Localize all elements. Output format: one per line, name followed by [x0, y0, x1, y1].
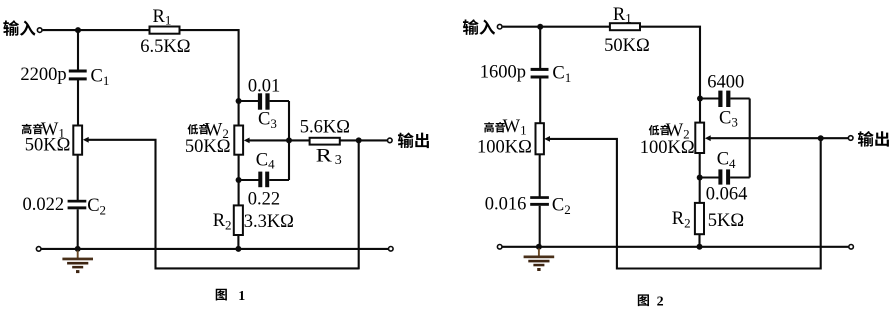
junction: R2 on bottom rail (figure 2)	[697, 244, 703, 250]
capacitor C1 top plate (figure 2)	[531, 68, 549, 71]
svg-text:1: 1	[238, 289, 245, 304]
label R3	[316, 145, 333, 166]
svg-text:5KΩ: 5KΩ	[708, 211, 744, 231]
junction: input / C1 node (figure 2)	[537, 24, 543, 30]
wire W1 bottom to C2	[77, 155, 79, 201]
wire C3 right lead	[270, 100, 289, 102]
svg-text:100KΩ: 100KΩ	[477, 137, 532, 157]
wire C4 right lead	[269, 179, 289, 181]
bottom rail right terminal (figure 2)	[849, 245, 854, 250]
wire input terminal to R1	[43, 29, 150, 31]
wire C1 lower lead to W1 top	[77, 79, 79, 127]
wire R2 bottom lead (figure 2)	[698, 234, 700, 247]
capacitor C1 top plate	[69, 70, 87, 73]
junction: wiper / C3 / C4 node	[286, 137, 292, 143]
potentiometer W1 wiper arrow (figure 2)	[544, 136, 550, 142]
caption 图 1	[216, 289, 227, 301]
svg-text:2200p: 2200p	[20, 65, 66, 85]
junction: output node (figure 2)	[818, 135, 824, 141]
wire input terminal to R1 (figure 2)	[503, 26, 610, 28]
svg-text:50KΩ: 50KΩ	[25, 136, 71, 156]
potentiometer W2 wiper arrow (figure 2)	[705, 135, 711, 141]
capacitor C4 right plate	[265, 172, 269, 188]
capacitor C3 right plate	[265, 93, 269, 109]
label 低音 (bass)	[188, 124, 199, 134]
resistor R1 (figure 2)	[610, 23, 640, 30]
junction: R2 on bottom rail	[235, 246, 241, 252]
svg-text:5.6KΩ: 5.6KΩ	[300, 118, 350, 138]
wire R3 to output junction	[340, 139, 360, 141]
capacitor C1 bottom plate (figure 2)	[531, 76, 549, 79]
wire C4 right lead (figure 2)	[730, 176, 750, 178]
svg-text:0.022: 0.022	[23, 195, 65, 215]
node: input net label 输入 (figure 2)	[463, 19, 479, 35]
wire C4 left lead (figure 2)	[700, 176, 719, 178]
svg-text:0.01: 0.01	[248, 77, 280, 97]
capacitor C4 left plate (figure 2)	[718, 169, 722, 184]
junction: W2 bottom / C4 left node	[236, 177, 242, 183]
junction: W2 top / C3 left node	[236, 98, 242, 104]
input terminal (figure 1)	[37, 28, 42, 33]
junction: W2 bottom / C4 left node (figure 2)	[697, 175, 703, 181]
svg-text:2: 2	[657, 294, 664, 309]
junction: C2 / ground on bottom rail (figure 2)	[536, 244, 542, 250]
label 高音 (treble, figure 2)	[484, 122, 494, 132]
potentiometer W2 body (figure 2)	[695, 123, 704, 153]
svg-text:R: R	[316, 145, 333, 166]
svg-text:50KΩ: 50KΩ	[604, 36, 650, 56]
caption 图 2	[638, 294, 649, 306]
resistor R3	[310, 138, 340, 145]
svg-text:3: 3	[335, 153, 342, 168]
node: output net label 输出 (figure 1)	[398, 132, 414, 148]
wire C3 left lead	[239, 100, 259, 102]
junction: C2 / ground on bottom rail	[75, 246, 81, 252]
wire C1 upper lead (figure 2)	[539, 27, 541, 69]
wire W2 wiper to R3	[249, 139, 309, 141]
wire C1 upper lead	[77, 30, 79, 70]
svg-text:6400: 6400	[707, 73, 744, 93]
bottom rail right terminal (figure 1)	[389, 247, 394, 252]
resistor R2	[234, 205, 243, 235]
capacitor C2 bottom plate (figure 2)	[530, 203, 549, 206]
label 低音 (bass, figure 2)	[649, 125, 660, 135]
wire W2 bottom to R2 top	[238, 155, 240, 206]
capacitor C4 right plate (figure 2)	[726, 169, 730, 184]
junction: output node (figure 1)	[356, 137, 362, 143]
resistor R2 (figure 2)	[695, 203, 704, 234]
label 高音 (treble)	[22, 124, 32, 134]
output terminal (figure 2)	[848, 136, 853, 141]
potentiometer W2 wiper arrow	[244, 138, 250, 144]
svg-text:100KΩ: 100KΩ	[640, 138, 695, 158]
wire C3 right lead (figure 2)	[730, 97, 749, 99]
capacitor C2 top plate	[68, 200, 87, 203]
wire C4 left lead	[239, 179, 259, 181]
capacitor C3 left plate (figure 2)	[718, 91, 722, 107]
svg-text:3.3KΩ: 3.3KΩ	[244, 212, 294, 232]
wire W2 wiper to output node (figure 2)	[711, 137, 821, 139]
potentiometer W1 body	[73, 126, 82, 155]
potentiometer W1 wiper arrow	[83, 137, 89, 143]
wire output node down to feedback rail (figure 2)	[820, 138, 822, 269]
junction: W2 top / C3 left node (figure 2)	[697, 96, 703, 102]
wire C3/C4 right vertical link (figure 2)	[749, 99, 751, 178]
svg-text:0.064: 0.064	[706, 184, 748, 204]
potentiometer W2 body	[234, 126, 243, 155]
svg-text:0.016: 0.016	[485, 195, 527, 215]
resistor R1	[150, 27, 180, 34]
wire R1 right side down to W2 top	[180, 30, 238, 126]
wire output junction to output terminal	[359, 139, 388, 141]
input terminal (figure 2)	[497, 24, 502, 29]
wire C2 to ground rail	[77, 209, 79, 249]
ground symbol (figure 1)	[62, 251, 93, 274]
wire W2 bottom to R2 top (figure 2)	[699, 153, 701, 204]
wire bottom ground rail (figure 2)	[502, 246, 848, 248]
ground symbol (figure 2)	[524, 248, 555, 271]
wire output node down to feedback rail	[358, 140, 360, 269]
svg-text:1600p: 1600p	[480, 62, 526, 82]
wire W1 wiper feedback path (figure 2)	[550, 139, 821, 269]
wire C2 to ground rail (figure 2)	[539, 206, 541, 248]
output terminal (figure 1)	[388, 138, 393, 143]
svg-text:50KΩ: 50KΩ	[185, 137, 231, 157]
wire R2 bottom lead	[237, 235, 239, 250]
bottom rail left terminal (figure 1)	[36, 247, 41, 252]
node: output net label 输出 (figure 2)	[858, 131, 874, 147]
capacitor C1 bottom plate	[69, 77, 87, 80]
capacitor C3 right plate (figure 2)	[726, 91, 730, 107]
capacitor C4 left plate	[258, 172, 262, 188]
bottom rail left terminal (figure 2)	[497, 245, 502, 250]
wire W1 wiper feedback path	[89, 140, 359, 269]
potentiometer W1 body (figure 2)	[536, 123, 544, 154]
wire W1 bottom to C2 (figure 2)	[539, 154, 541, 197]
node: input net label 输入 (figure 1)	[3, 20, 19, 36]
svg-text:6.5KΩ: 6.5KΩ	[140, 37, 190, 57]
svg-text:0.22: 0.22	[248, 189, 280, 209]
wire bottom ground rail (figure 1)	[41, 248, 388, 250]
wire R1 right side down to W2 top (figure 2)	[641, 27, 701, 123]
junction: input / C1 node	[75, 27, 81, 33]
capacitor C2 top plate (figure 2)	[530, 196, 549, 199]
wire output junction to output terminal (figure 2)	[821, 137, 849, 139]
wire C3/C4 right vertical link	[288, 101, 290, 180]
wire C1 lower lead to W1 top (figure 2)	[539, 77, 541, 124]
capacitor C2 bottom plate	[68, 206, 87, 209]
wire C3 left lead (figure 2)	[700, 97, 719, 99]
capacitor C3 left plate	[258, 93, 262, 109]
